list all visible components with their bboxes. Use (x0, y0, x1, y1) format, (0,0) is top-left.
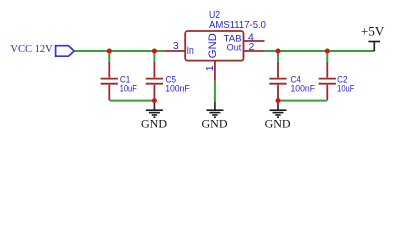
svg-text:VCC 12V: VCC 12V (10, 44, 53, 55)
svg-text:1: 1 (204, 65, 216, 71)
svg-text:GND: GND (265, 116, 291, 130)
capacitor C1 (101, 62, 118, 100)
wire bottom left rail (109, 100, 154, 102)
junction node C4/rail (276, 49, 281, 54)
junction node C5/rail (152, 49, 157, 54)
svg-text:+5V: +5V (361, 23, 385, 38)
wire output rail (265, 50, 375, 52)
svg-text:100nF: 100nF (291, 83, 316, 94)
svg-text:10uF: 10uF (120, 83, 137, 94)
power +5V (368, 42, 380, 52)
svg-text:AMS1117-5.0: AMS1117-5.0 (209, 19, 266, 31)
junction node right ground (276, 98, 281, 103)
wire bottom right rail (278, 100, 327, 102)
svg-text:GND: GND (202, 116, 228, 130)
svg-text:GND: GND (207, 33, 219, 58)
pin 1 of U2 (214, 61, 216, 81)
ground GND right (270, 102, 287, 118)
ground GND middle (206, 102, 223, 118)
ground GND left (146, 102, 163, 118)
capacitor C4 (269, 62, 286, 100)
wire stub C5 top (153, 51, 155, 62)
pin 2 of U2 (244, 50, 265, 52)
svg-text:10uF: 10uF (337, 83, 354, 94)
wire pin1 to ground (214, 81, 216, 102)
svg-text:In: In (187, 45, 194, 57)
junction node C2/rail (325, 49, 330, 54)
junction node left ground (152, 98, 157, 103)
wire stub C2 top (326, 51, 328, 62)
wire stub C4 top (277, 51, 279, 62)
wire stub C1 top (108, 51, 110, 62)
svg-text:100nF: 100nF (165, 83, 190, 94)
op-amp U2 box (185, 31, 243, 61)
svg-text:Out: Out (227, 42, 242, 53)
pin 3 of U2 (164, 50, 185, 52)
pin 4 of U2 (244, 40, 265, 42)
capacitor C2 (319, 62, 336, 100)
wire input rail (75, 50, 165, 52)
svg-text:3: 3 (173, 40, 179, 52)
capacitor C5 (146, 62, 163, 100)
svg-text:GND: GND (141, 116, 167, 130)
svg-text:2: 2 (249, 41, 255, 53)
port VCC 12V (56, 46, 75, 57)
junction node C1/rail (107, 49, 112, 54)
